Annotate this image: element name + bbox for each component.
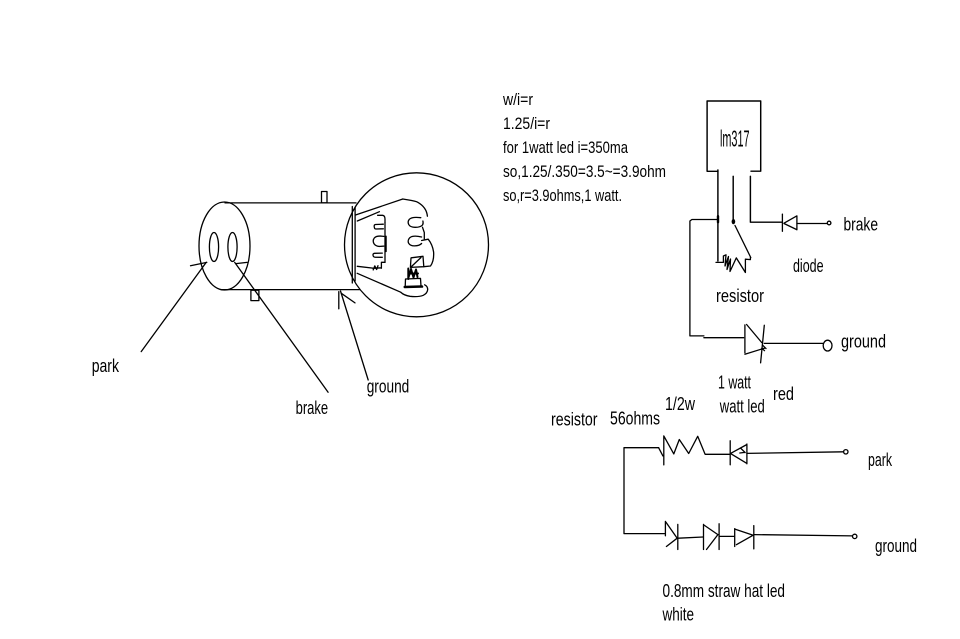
- diode D3 triangle: [731, 444, 747, 464]
- svg-text:56ohms: 56ohms: [610, 409, 660, 429]
- svg-text:w/i=r: w/i=r: [502, 90, 533, 109]
- led chip R4: [405, 278, 421, 286]
- svg-text:1.25/i=r: 1.25/i=r: [503, 114, 550, 133]
- svg-text:ground: ground: [875, 536, 917, 556]
- bulb foot blob: [401, 285, 428, 297]
- holder top right hook: [403, 199, 428, 216]
- svg-text:so,r=3.9ohms,1 watt.: so,r=3.9ohms,1 watt.: [503, 186, 622, 205]
- led D4 left edge: [664, 521, 666, 535]
- led D6 bottom slant: [736, 535, 753, 545]
- svg-text:lm317: lm317: [720, 126, 750, 152]
- contact ellipse 2: [228, 233, 237, 262]
- ground pointer line: [341, 291, 369, 380]
- left rail wire: [690, 220, 744, 338]
- diode D3 bar: [729, 441, 731, 465]
- rail wire left: [624, 448, 665, 534]
- regulator U1 box: [707, 101, 761, 171]
- led D5 top slant: [704, 525, 718, 535]
- svg-text:1 watt: 1 watt: [718, 373, 751, 393]
- svg-text:so,1.25/.350=3.5~=3.9ohm: so,1.25/.350=3.5~=3.9ohm: [503, 162, 666, 181]
- SECTION: lm317 circuit: [690, 101, 832, 363]
- led chip R3: [410, 256, 423, 267]
- led chip L1: [374, 224, 383, 229]
- park pointer line: [141, 262, 206, 351]
- led petal right: [422, 239, 434, 267]
- contact ellipse 1: [209, 233, 218, 262]
- socket end cap ellipse: [199, 202, 250, 290]
- led D2 wire to ground: [764, 342, 823, 344]
- bayonet pin bottom: [251, 290, 259, 300]
- led D4 bottom slant: [666, 538, 677, 546]
- led panel left column edge: [385, 223, 386, 263]
- pin 2 middle: [732, 176, 734, 219]
- socket right end double line: [352, 207, 355, 284]
- diode D1 wire to brake: [797, 223, 827, 225]
- svg-text:ground: ground: [841, 332, 886, 352]
- svg-text:for 1watt led i=350ma: for 1watt led i=350ma: [503, 138, 628, 157]
- svg-text:red: red: [773, 384, 794, 404]
- SECTION: text: [502, 90, 666, 205]
- ground pointer tick slant: [341, 293, 355, 303]
- glass bulb circle: [345, 173, 489, 317]
- park terminal circle: [844, 450, 848, 454]
- svg-text:park: park: [92, 356, 120, 376]
- bayonet pin top: [322, 192, 328, 203]
- led chip L3: [373, 253, 382, 257]
- led D6 left edge: [734, 529, 736, 547]
- brake pointer tick: [236, 262, 247, 263]
- svg-text:resistor: resistor: [551, 410, 598, 430]
- led D5 bar: [718, 524, 720, 550]
- led D4 bar: [677, 524, 679, 549]
- led panel bottom bracket: [357, 262, 385, 270]
- diode D1 triangle: [784, 216, 797, 230]
- led panel left column top corner: [378, 215, 385, 222]
- svg-text:watt led: watt led: [719, 397, 765, 417]
- ground pointer tick vertical: [338, 292, 340, 309]
- led scribble: [408, 269, 418, 280]
- wire socket top line: [225, 202, 356, 204]
- svg-text:1/2w: 1/2w: [665, 394, 696, 414]
- holder top slant line 2: [357, 212, 379, 221]
- SECTION: bottom circuit: [624, 436, 857, 550]
- led D4 top slant: [666, 522, 677, 538]
- led chip R4 base thick: [405, 285, 422, 288]
- led D2 bottom slant: [745, 348, 765, 354]
- led panel R connector: [423, 227, 425, 239]
- wire D4-D5: [678, 537, 703, 538]
- pin 2 junction dot: [732, 219, 736, 224]
- led D2 left edge: [744, 325, 746, 353]
- svg-text:diode: diode: [793, 256, 824, 276]
- led D5 bottom slant: [707, 535, 718, 550]
- led D2 cathode bar: [761, 325, 765, 363]
- wire socket bottom line: [221, 289, 360, 291]
- led chip R1: [408, 217, 423, 227]
- svg-text:white: white: [662, 605, 694, 625]
- brake terminal circle: [827, 221, 831, 225]
- led D2 apex ticks: [762, 345, 766, 351]
- wire to park: [747, 452, 844, 454]
- adj slant wire: [735, 226, 751, 258]
- pin 3 right + wire to diode: [750, 176, 781, 222]
- ground terminal circle: [853, 534, 857, 538]
- wire to ground: [754, 535, 852, 536]
- wire D5-D6: [720, 535, 734, 537]
- pin 1 left: [717, 170, 719, 261]
- svg-text:ground: ground: [367, 377, 410, 397]
- SECTION: left labels/arrows: [141, 262, 368, 392]
- svg-text:resistor: resistor: [716, 286, 764, 306]
- led D6 top slant: [735, 529, 753, 535]
- diode D3 apex tick: [740, 448, 745, 453]
- diode D1 bar: [781, 214, 783, 231]
- led chip L2: [373, 236, 384, 246]
- svg-text:park: park: [868, 450, 893, 470]
- ground terminal ellipse: [823, 340, 832, 351]
- led D6 bar: [753, 526, 755, 549]
- holder top slant line: [356, 199, 403, 215]
- led D5 left edge: [703, 524, 705, 549]
- svg-text:0.8mm straw hat led: 0.8mm straw hat led: [663, 581, 786, 601]
- resistor R1 scribble: [716, 255, 750, 273]
- resistor R2 zigzag: [659, 436, 730, 465]
- svg-text:brake: brake: [844, 215, 879, 235]
- brake pointer line: [235, 262, 328, 392]
- led chip R2: [408, 236, 421, 246]
- SECTION: bulb drawing: [199, 173, 489, 317]
- pin 1 junction tick: [717, 216, 719, 222]
- park pointer tick: [191, 262, 207, 265]
- svg-text:brake: brake: [296, 398, 329, 418]
- led D2 top slant: [747, 325, 762, 343]
- holder bottom slant line: [357, 273, 401, 292]
